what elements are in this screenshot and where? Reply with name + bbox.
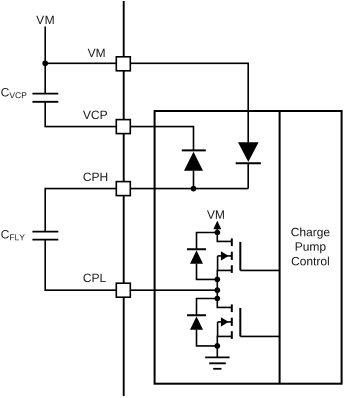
charge pump control block U1 outline: [155, 111, 342, 384]
body diode D3 of Q1: [187, 249, 217, 279]
transistor Q1 (high-side NMOS): [217, 233, 240, 280]
pin VCP: [116, 120, 130, 134]
VM rail arrow: [213, 221, 221, 233]
node: drain junction dot of Q1: [214, 230, 220, 236]
diode D1 (VCP to CPH): [182, 150, 206, 188]
label VM (external supply): [36, 16, 54, 24]
wire: junction chain: [216, 279, 218, 298]
diode D2 (VM to CPH): [236, 142, 261, 188]
pin VM: [116, 57, 130, 71]
label pin CPL: [84, 274, 106, 283]
wire: CPL pin into block: [131, 289, 217, 291]
pin CPL: [116, 283, 130, 297]
label pin VCP: [83, 111, 107, 120]
label CVCP part C: [1, 88, 9, 97]
wire: IC boundary line: [123, 1, 125, 396]
wire: CFLY bottom to CPL pin: [45, 240, 115, 291]
wire: node A down to capacitor CVCP: [44, 63, 46, 93]
wire: CPH pin left to capacitor CFLY: [45, 189, 115, 232]
capacitor CVCP: [32, 94, 58, 102]
node A junction dot: [42, 60, 48, 66]
pin CPH: [116, 182, 130, 196]
ground: [205, 346, 229, 369]
wire: VM stub down to node A: [44, 27, 46, 64]
wire: VM pin to right diode anode: [131, 63, 248, 142]
wire: Q1 drain branch to body diode: [197, 233, 218, 250]
capacitor CFLY: [32, 232, 58, 240]
wire: CPH pin into block: [131, 188, 248, 190]
node: Q2 source junction dot: [214, 343, 220, 349]
transistor Q2 (low-side NMOS): [217, 299, 240, 346]
node: Q1 source junction dot: [214, 277, 220, 283]
label CVCP subscript: [9, 92, 26, 98]
wire: Q2 drain branch to body diode: [197, 299, 218, 316]
wire: Q1 gate to control block: [240, 269, 279, 271]
label pin CPH: [84, 173, 108, 182]
charge pump control block divider: [279, 111, 281, 384]
label Control: [292, 257, 329, 266]
node CPH junction dot: [191, 186, 197, 192]
label CFLY subscript: [10, 234, 25, 240]
wire: node A to VM pin: [45, 62, 115, 64]
label VM (internal rail): [207, 210, 224, 218]
node: Q2 drain junction dot: [214, 296, 220, 302]
wire: CVCP bottom to VCP pin: [45, 102, 115, 127]
label Charge: [291, 228, 329, 239]
label CFLY part C: [1, 230, 9, 239]
label pin VM: [88, 49, 105, 57]
node: CPL junction dot: [214, 287, 220, 293]
body diode D4 of Q2: [187, 315, 217, 346]
wire: Q2 gate to control block: [240, 335, 279, 337]
label Pump: [296, 242, 326, 253]
wire: VCP pin to left diode cathode: [131, 127, 194, 151]
